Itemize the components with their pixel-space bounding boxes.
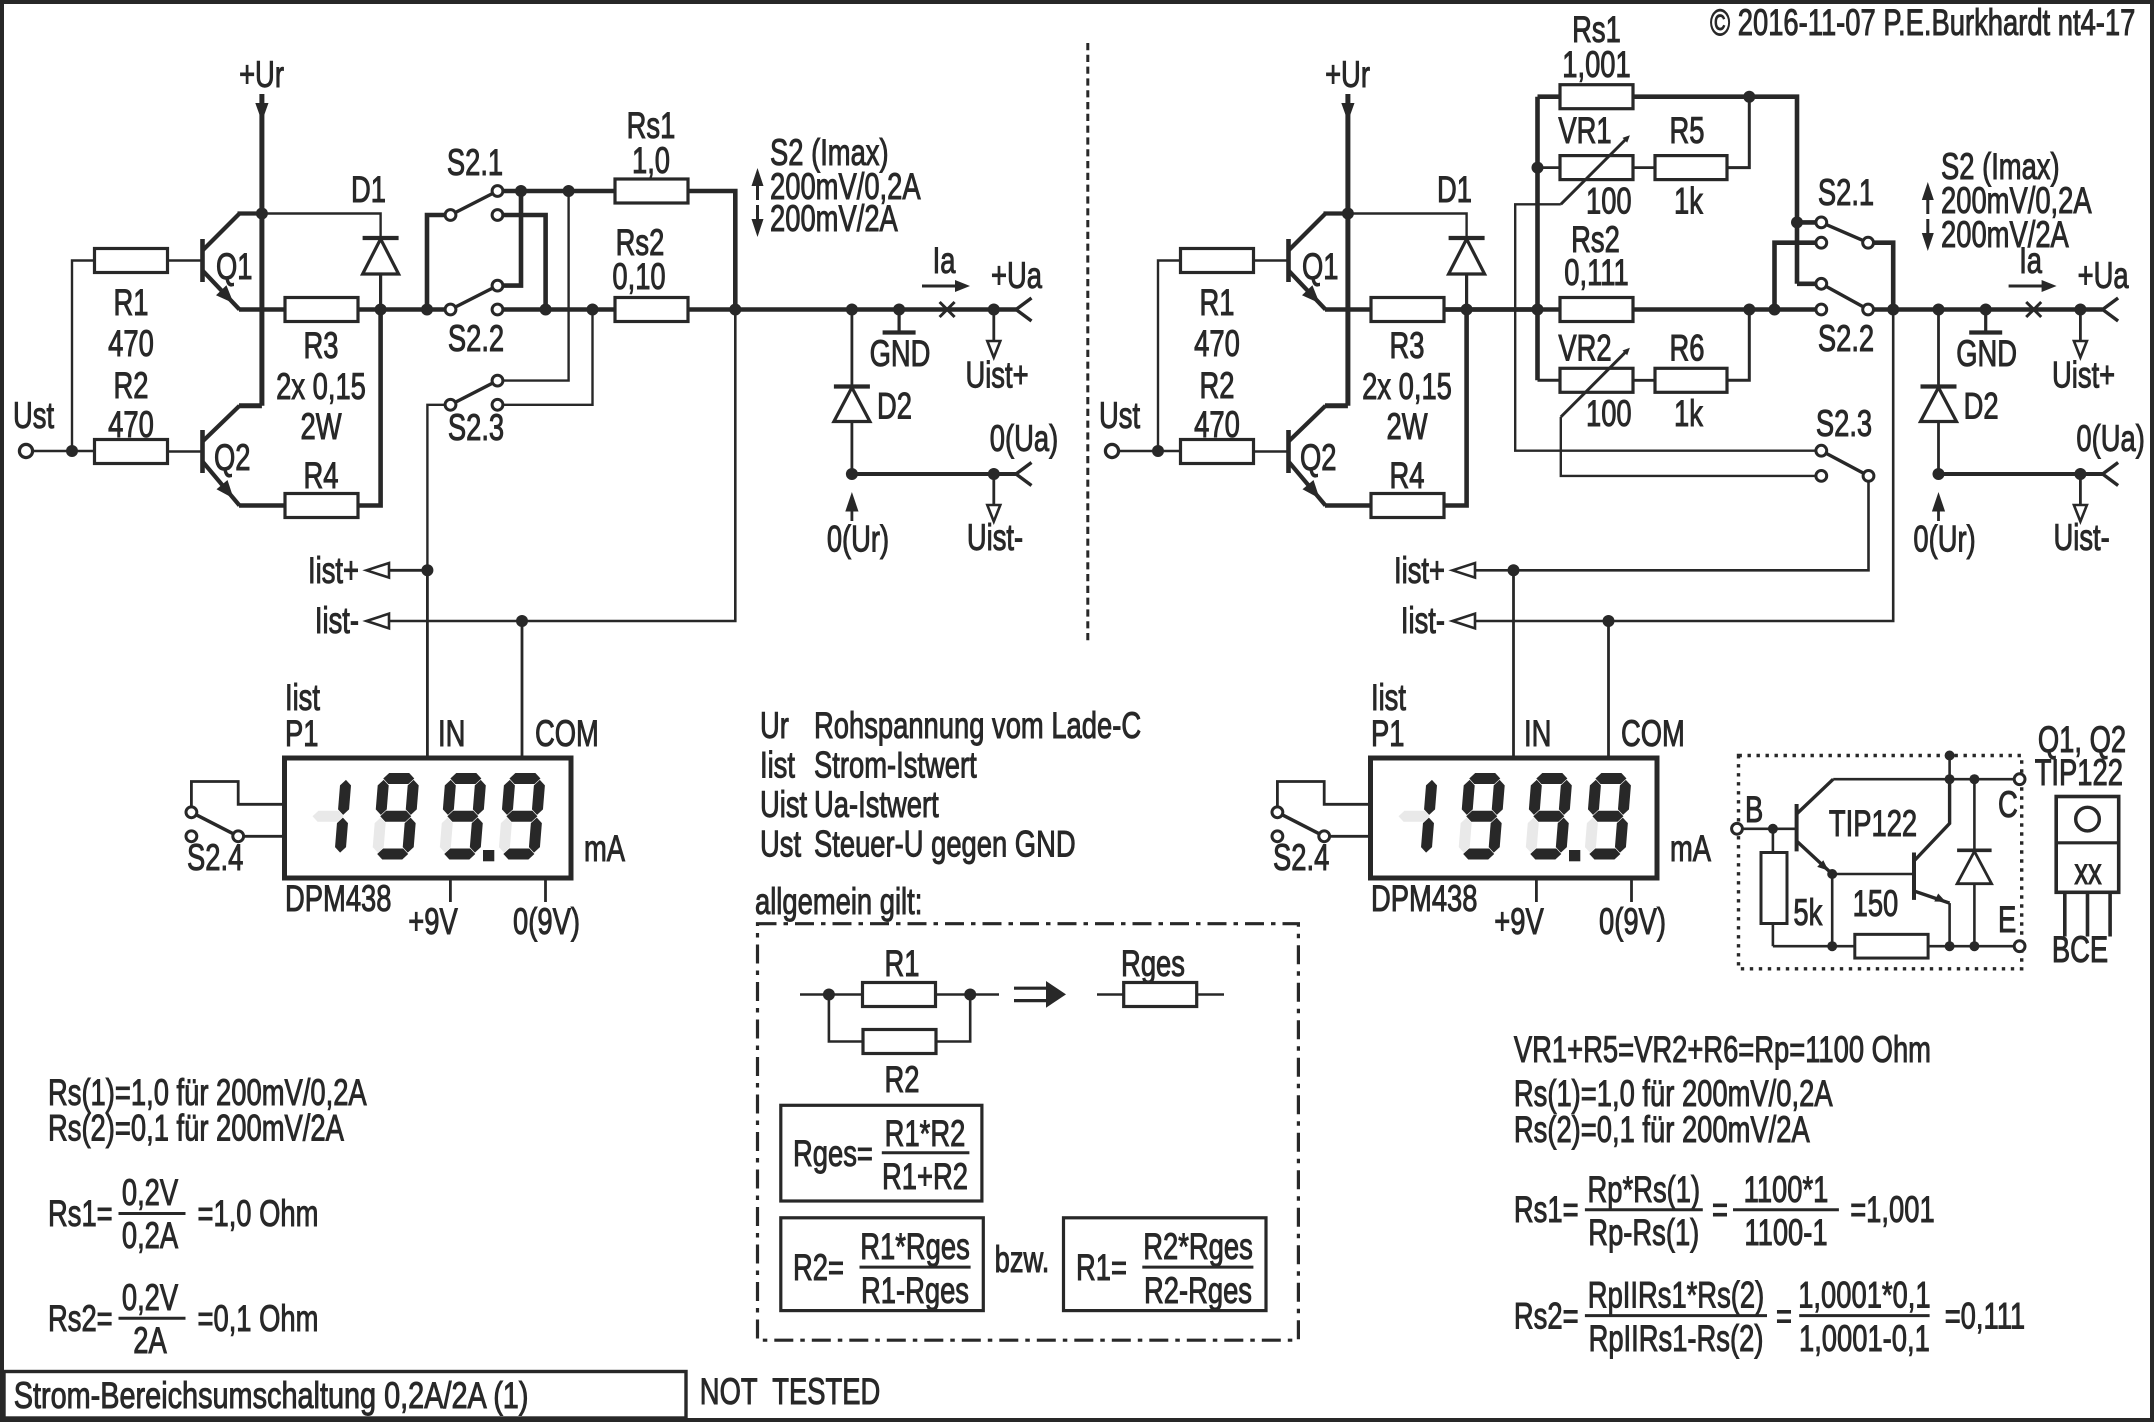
svg-text:Rs1=: Rs1=: [48, 1193, 113, 1234]
svg-text:xx: xx: [2074, 851, 2101, 892]
node Rs1/R5 output: [1743, 91, 1755, 103]
wire rail Rs2 to S2.2 (right): [1633, 307, 1821, 312]
node emitter/base2: [1827, 869, 1837, 879]
svg-text:Iist-: Iist-: [315, 600, 359, 641]
wire R2 to Q2 base: [168, 450, 203, 452]
title box: [4, 1372, 686, 1419]
wire D2 to 0(Ur) node: [851, 422, 854, 475]
node VR1 input: [1532, 162, 1544, 174]
wire B to base node: [1743, 827, 1773, 830]
shunt resistor Rs2: [615, 298, 688, 322]
svg-text:0,111: 0,111: [1564, 252, 1628, 293]
arrow Iist+: [367, 563, 390, 578]
wire D1 to rail: [379, 274, 382, 310]
svg-text:150: 150: [1853, 883, 1899, 924]
wire +Ur supply vertical: [259, 94, 264, 406]
wire Rs1 output down to rail: [687, 191, 735, 310]
svg-text:=1,001: =1,001: [1850, 1189, 1934, 1230]
node Iist+ to meter IN (right): [1508, 564, 1520, 576]
node rail shunt input: [1532, 304, 1544, 316]
wire D2 to 0(Ur) node: [1937, 422, 1940, 475]
node 0(Ur) junction: [846, 468, 858, 480]
arrow Iist-: [367, 614, 390, 629]
svg-text:=: =: [1712, 1189, 1728, 1230]
parallel example resistor R1: [800, 993, 863, 996]
trimmer VR1: [1538, 166, 1561, 169]
wire D1 top: [1348, 214, 1467, 239]
svg-text:Strom-Istwert: Strom-Istwert: [814, 745, 977, 786]
transistor Q1: [200, 239, 205, 282]
digital panel meter P1 DPM438 box: [1371, 758, 1658, 878]
switch S2.1: [451, 191, 498, 215]
formula box Rges: [781, 1105, 982, 1201]
node Q1 collector junction: [256, 208, 268, 220]
wire S2.2 top contact link: [498, 191, 522, 286]
svg-text:Q2: Q2: [214, 437, 251, 478]
svg-text:R1*Rges: R1*Rges: [860, 1226, 970, 1267]
wire collector rail inset: [1833, 778, 2019, 781]
svg-text:Q1: Q1: [1302, 246, 1339, 287]
svg-text:© 2016-11-07 P.E.Burkhardt nt4: © 2016-11-07 P.E.Burkhardt nt4-17: [1710, 2, 2135, 43]
wire R1 to Q1 base: [1254, 259, 1289, 261]
wire S2.3 top contact link: [498, 191, 569, 381]
7-segment display reading 199.9: [1396, 780, 1438, 853]
wire Q2 emitter to R4: [239, 503, 285, 508]
resistor R1 (example): [863, 983, 936, 1007]
wire D2 anode stub: [1937, 310, 1940, 387]
shunt resistor Rs1: [615, 179, 688, 203]
node emitter rail A: [1827, 941, 1837, 951]
wire D1 to rail: [1465, 274, 1468, 310]
svg-text:VR1: VR1: [1558, 110, 1611, 151]
wire S2.1 bottom contact link: [498, 215, 546, 310]
svg-text:0(Ur): 0(Ur): [1913, 519, 1975, 560]
supply arrow +Ur: [255, 103, 268, 122]
wire node up to R1: [72, 261, 95, 452]
connector break X: [2026, 302, 2041, 317]
wire VR2 to R6: [1633, 379, 1655, 382]
switch S2.3 (right): [1821, 451, 1868, 476]
svg-text:2W: 2W: [300, 406, 341, 447]
svg-text:Iist+: Iist+: [1394, 550, 1445, 591]
wire R6 output up to rail: [1727, 310, 1749, 381]
svg-text:=0,111: =0,111: [1945, 1296, 2025, 1337]
switch S2.4: [1277, 812, 1324, 836]
diode D1: [1449, 236, 1485, 240]
arrow Uist- sense: [992, 474, 995, 505]
pin 0(9V) stub: [544, 878, 547, 902]
resistor R3: [285, 298, 358, 322]
stub S2.2 top contact: [1797, 281, 1821, 286]
svg-text:1,001: 1,001: [1562, 44, 1630, 85]
node emitter rail B: [1945, 941, 1955, 951]
svg-text:0,2V: 0,2V: [122, 1277, 179, 1318]
output terminal +Ua: [2103, 298, 2119, 321]
svg-text:0,10: 0,10: [612, 256, 665, 297]
svg-text:DPM438: DPM438: [1371, 878, 1477, 919]
svg-text:Uist+: Uist+: [965, 355, 1028, 396]
output terminal 0(Ua): [1016, 463, 1032, 486]
wire Q1 emitter to R3: [239, 307, 285, 312]
pin +9V stub: [449, 878, 452, 902]
resistor R1: [95, 249, 168, 273]
svg-text:0(9V): 0(9V): [1599, 901, 1666, 942]
resistor R6: [1655, 368, 1727, 392]
node rail Uist+ branch: [988, 304, 1000, 316]
svg-text:2W: 2W: [1386, 406, 1427, 447]
node emitter rail C: [1969, 941, 1979, 951]
pin +9V stub: [1535, 878, 1538, 902]
wire Rs1 input line: [498, 189, 616, 194]
node rail S2.1 bottom branch: [1769, 304, 1781, 316]
svg-text:Rp*Rs(1): Rp*Rs(1): [1588, 1169, 1701, 1210]
node Q1 collector junction: [1342, 208, 1354, 220]
svg-text:BCE: BCE: [2052, 929, 2108, 970]
svg-text:R5: R5: [1670, 110, 1705, 151]
svg-text:S2.1: S2.1: [1818, 172, 1874, 213]
node collector rail A: [1945, 774, 1955, 784]
arrow Uist+ sense: [2079, 310, 2082, 342]
wire to Rs1 (right): [1538, 94, 1561, 99]
wire Ust to node: [33, 450, 72, 452]
output terminal +Ua: [1016, 298, 1032, 321]
digital panel meter P1 DPM438 box: [285, 758, 572, 878]
svg-text:IN: IN: [1524, 713, 1551, 754]
svg-text:Steuer-U gegen GND: Steuer-U gegen GND: [814, 824, 1076, 865]
wire Iist- from shunt output: [389, 310, 735, 622]
svg-text:S2.4: S2.4: [187, 837, 243, 878]
svg-text:P1: P1: [1371, 713, 1404, 754]
svg-text:RpIIRs1-Rs(2): RpIIRs1-Rs(2): [1589, 1318, 1764, 1359]
wire emitter rail inset: [1773, 945, 2020, 948]
svg-text:D2: D2: [877, 386, 912, 427]
svg-text:GND: GND: [870, 333, 931, 374]
stub S2.1 top contact: [1797, 220, 1821, 225]
svg-text:200mV/2A: 200mV/2A: [1941, 214, 2069, 255]
node rail S2.1 bottom: [540, 304, 552, 316]
diode D2: [834, 384, 870, 388]
svg-text:S2.1: S2.1: [447, 142, 503, 183]
wire rail R3 to switch area: [359, 307, 451, 312]
svg-text:1100-1: 1100-1: [1744, 1212, 1827, 1253]
transistor TIP122 output stage: [1912, 853, 1916, 900]
wire R4 to rail node: [359, 310, 381, 506]
wire R2 to Q2 base: [1254, 450, 1289, 452]
svg-text:D1: D1: [351, 169, 386, 210]
svg-text:+Ua: +Ua: [991, 255, 1043, 296]
pin 0(9V) stub: [1630, 878, 1633, 902]
node rail S2.3 bottom: [587, 304, 599, 316]
svg-text:2x 0,15: 2x 0,15: [276, 366, 366, 407]
terminal E: [2014, 941, 2025, 952]
svg-text:Rs2=: Rs2=: [48, 1298, 113, 1339]
svg-text:GND: GND: [1956, 333, 2017, 374]
svg-text:Rp-Rs(1): Rp-Rs(1): [1588, 1212, 1699, 1253]
wire 0 rail: [1939, 472, 2103, 476]
wire node up to R1: [1158, 261, 1181, 452]
resistor R4: [1371, 494, 1444, 518]
wire meter COM (right): [1607, 621, 1610, 758]
wire S2.3 common to Iist+ (right): [1475, 481, 1869, 570]
range legend S2 (Imax) right: [1922, 182, 1934, 200]
svg-text:0(Ur): 0(Ur): [827, 519, 889, 560]
svg-text:NOT TESTED: NOT TESTED: [700, 1371, 880, 1412]
resistor R1: [1181, 249, 1254, 273]
wire R1 to Q1 base: [168, 259, 203, 261]
svg-text:0,2V: 0,2V: [122, 1172, 179, 1213]
svg-text:Q2: Q2: [1300, 437, 1337, 478]
svg-text:R2-Rges: R2-Rges: [1144, 1270, 1252, 1311]
svg-text:S2.2: S2.2: [1818, 318, 1874, 359]
wire VR1 wiper to S2.3 top: [1515, 204, 1821, 450]
svg-text:Iist: Iist: [760, 745, 795, 786]
arrow Iist+ (right): [1453, 563, 1476, 578]
svg-text:470: 470: [108, 323, 154, 364]
node S2.1 top contact feed: [1791, 216, 1803, 228]
wire Q2 emitter to R4: [1325, 503, 1371, 508]
switch S2.4: [191, 812, 238, 836]
svg-text:5k: 5k: [1793, 892, 1823, 933]
svg-text:R2=: R2=: [793, 1247, 844, 1288]
svg-text:S2.2: S2.2: [448, 318, 504, 359]
ground symbol GND: [1980, 304, 1992, 316]
terminal C: [2014, 774, 2025, 785]
svg-text:D1: D1: [1437, 169, 1472, 210]
switch S2.1 common wire: [427, 215, 451, 310]
node parallel right: [964, 989, 976, 1001]
svg-text:Iist+: Iist+: [308, 550, 359, 591]
svg-text:2A: 2A: [133, 1320, 167, 1361]
wire node to R2: [1158, 450, 1181, 452]
wire node to Q_B base: [1832, 873, 1914, 876]
ground symbol GND: [893, 304, 905, 316]
wire Rs1 output line (right): [1633, 97, 1797, 284]
wire R4 to rail node: [1445, 310, 1467, 506]
svg-text:COM: COM: [535, 713, 599, 754]
wire meter IN (right): [1512, 570, 1515, 758]
node Rs1 line A: [515, 185, 527, 197]
svg-text:Rs2=: Rs2=: [1514, 1296, 1579, 1337]
terminal B: [1732, 823, 1743, 834]
arrow Uist- sense: [2079, 474, 2082, 505]
node 0 rail Uist- branch: [2074, 468, 2086, 480]
svg-text:+Ur: +Ur: [1325, 54, 1370, 95]
wire D2 anode stub: [851, 310, 854, 387]
formula box R2: [781, 1218, 984, 1311]
resistor 5k: [1772, 829, 1775, 853]
node Iist- to meter COM: [516, 615, 528, 627]
wire parallel left branch: [829, 995, 863, 1042]
svg-text:Iist-: Iist-: [1401, 600, 1445, 641]
node rail S2.1 common: [421, 304, 433, 316]
svg-text:Iist: Iist: [285, 677, 320, 718]
range legend S2 (Imax): [752, 168, 764, 186]
wire VR2 wiper to S2.3 bottom: [1561, 417, 1822, 476]
svg-text:P1: P1: [285, 713, 318, 754]
node 0 rail Uist- branch: [988, 468, 1000, 480]
wire meter IN: [426, 570, 429, 758]
dash-dot formula box: [758, 924, 1299, 1340]
svg-text:+Ur: +Ur: [239, 54, 284, 95]
svg-text:R1: R1: [114, 282, 149, 323]
node rail S2.1 common: [1887, 304, 1899, 316]
node Iist- to meter COM (right): [1603, 615, 1615, 627]
svg-text:100: 100: [1586, 181, 1632, 222]
node base: [1768, 824, 1778, 834]
wire emitter node down: [1831, 874, 1834, 946]
diode D2: [1921, 384, 1957, 388]
output terminal 0(Ua): [2103, 463, 2119, 486]
svg-text:R6: R6: [1670, 328, 1705, 369]
svg-text:TIP122: TIP122: [1829, 803, 1917, 844]
svg-text:Q1: Q1: [216, 246, 253, 287]
node Iist+ to meter IN: [421, 564, 433, 576]
svg-text:1100*1: 1100*1: [1744, 1169, 1829, 1210]
trimmer VR2: [1538, 379, 1561, 382]
resistor R2: [1181, 440, 1254, 464]
svg-text:Rohspannung vom Lade-C: Rohspannung vom Lade-C: [814, 705, 1141, 746]
svg-text:1,0001-0,1: 1,0001-0,1: [1799, 1318, 1930, 1359]
shunt resistor Rs2 (right): [1560, 298, 1633, 322]
svg-text:S2.3: S2.3: [448, 407, 504, 448]
node case dot: [1945, 751, 1955, 761]
terminal Ust: [19, 444, 32, 457]
svg-text:RpIIRs1*Rs(2): RpIIRs1*Rs(2): [1588, 1275, 1764, 1316]
TO-220 package: [2056, 797, 2119, 893]
transistor TIP122 input stage: [1795, 804, 1799, 851]
wire S2.3 bottom contact link: [498, 310, 593, 405]
svg-text:Rs1=: Rs1=: [1514, 1189, 1579, 1230]
transistor Q1: [1286, 239, 1291, 282]
wire rail Rs2 to output: [687, 307, 1016, 312]
svg-text:Rges=: Rges=: [793, 1133, 873, 1174]
svg-text:R2: R2: [114, 365, 149, 406]
wire S2.1 bottom contact to rail: [1775, 243, 1822, 310]
supply arrow +Ur: [1341, 103, 1354, 122]
wire S2.1 common to rail: [1868, 243, 1893, 310]
svg-text:+9V: +9V: [408, 901, 458, 942]
arrow 0(Ur) feed: [851, 508, 854, 521]
wire S2.3 common to Iist+: [427, 405, 445, 571]
svg-text:TIP122: TIP122: [2035, 752, 2123, 793]
switch S2.2 (right): [1821, 284, 1868, 310]
svg-text:2x 0,15: 2x 0,15: [1362, 366, 1452, 407]
svg-text:Ia: Ia: [933, 240, 957, 281]
wire node to R2: [72, 450, 95, 452]
arrow Uist+ sense: [992, 310, 995, 342]
svg-text:0(Ua): 0(Ua): [2076, 418, 2144, 459]
svg-text:Rs(2)=0,1 für 200mV/2A: Rs(2)=0,1 für 200mV/2A: [48, 1108, 344, 1149]
svg-text:mA: mA: [584, 828, 625, 869]
wire rail S2.2 to Rs2: [503, 307, 615, 312]
transistor Q2: [1286, 430, 1291, 473]
svg-text:+9V: +9V: [1494, 901, 1544, 942]
svg-text:200mV/2A: 200mV/2A: [770, 198, 898, 239]
svg-text:+Ua: +Ua: [2078, 255, 2130, 296]
svg-text:VR2: VR2: [1558, 328, 1611, 369]
svg-text:Uist+: Uist+: [2052, 355, 2115, 396]
switch S2.2: [451, 286, 498, 310]
svg-text:0(Ua): 0(Ua): [990, 418, 1058, 459]
svg-text:bzw.: bzw.: [995, 1239, 1050, 1280]
svg-text:Ust: Ust: [13, 395, 54, 436]
wire shunt input vertical: [1535, 97, 1540, 381]
svg-text:Strom-Bereichsumschaltung 0,2A: Strom-Bereichsumschaltung 0,2A/2A (1): [14, 1376, 529, 1417]
svg-text:=: =: [1776, 1296, 1792, 1337]
svg-text:R3: R3: [1390, 325, 1425, 366]
wire Q2 collector bend: [239, 403, 262, 408]
svg-text:0(9V): 0(9V): [513, 901, 580, 942]
wire Iist- from rail (right): [1475, 310, 1893, 622]
arrow Iist- (right): [1453, 614, 1476, 629]
node Ust junction: [66, 445, 78, 457]
terminal Ust: [1105, 444, 1118, 457]
svg-text:Ust: Ust: [1099, 395, 1140, 436]
svg-text:R1: R1: [885, 943, 920, 984]
node rail Uist+ branch: [2074, 304, 2086, 316]
package pins: [2063, 892, 2067, 936]
svg-text:mA: mA: [1670, 828, 1711, 869]
node Rs1 line B: [563, 185, 575, 197]
svg-text:0,2A: 0,2A: [122, 1215, 179, 1256]
dashed separator line: [1086, 43, 1089, 641]
node Ust junction: [1152, 445, 1164, 457]
svg-text:Rges: Rges: [1121, 943, 1185, 984]
TIP122 inset dotted box: [1739, 756, 2022, 969]
wire meter COM: [521, 621, 524, 758]
implies arrow: [1014, 987, 1050, 990]
svg-text:R3: R3: [304, 325, 339, 366]
arrow 0(Ur) feed: [1937, 508, 1940, 521]
shunt resistor Rs1 (right): [1560, 85, 1633, 109]
svg-text:R4: R4: [1390, 455, 1425, 496]
node collector rail B: [1969, 774, 1979, 784]
svg-text:R2: R2: [1200, 365, 1235, 406]
svg-text:1k: 1k: [1674, 393, 1704, 434]
connector break X: [940, 302, 955, 317]
svg-text:S2.3: S2.3: [1816, 403, 1872, 444]
node parallel left: [823, 989, 835, 1001]
svg-text:1,0: 1,0: [632, 140, 670, 181]
wire VR1 to R5: [1633, 166, 1655, 169]
svg-text:470: 470: [1194, 323, 1240, 364]
wire rail to Rs2 input (right): [1445, 307, 1561, 312]
wire rail S2.2 common to output (right): [1874, 307, 2103, 312]
wire Q2 collector bend: [1325, 403, 1348, 408]
svg-text:=1,0 Ohm: =1,0 Ohm: [198, 1193, 319, 1234]
svg-text:B: B: [1745, 789, 1763, 830]
wire Iist+ line: [389, 569, 427, 572]
svg-text:allgemein gilt:: allgemein gilt:: [755, 881, 922, 922]
wire node to Q_A base: [1773, 827, 1797, 830]
wire 0 rail: [852, 472, 1016, 476]
svg-text:R1*R2: R1*R2: [885, 1113, 966, 1154]
diode D1: [363, 236, 399, 240]
svg-text:R1: R1: [1200, 282, 1235, 323]
resistor R2: [95, 440, 168, 464]
transistor Q2: [200, 430, 205, 473]
wire Q1 emitter to R3: [1325, 307, 1371, 312]
wire Ust to node: [1119, 450, 1158, 452]
svg-text:Rs(2)=0,1 für 200mV/2A: Rs(2)=0,1 für 200mV/2A: [1514, 1109, 1810, 1150]
internal diode: [1973, 779, 1976, 850]
svg-text:D2: D2: [1964, 386, 1999, 427]
svg-text:R1+R2: R1+R2: [882, 1156, 968, 1197]
wire rail R3 to switch area: [1445, 307, 1537, 312]
svg-text:S2.4: S2.4: [1273, 837, 1329, 878]
svg-text:1,0001*0,1: 1,0001*0,1: [1798, 1275, 1930, 1316]
node rail D2 branch: [846, 304, 858, 316]
